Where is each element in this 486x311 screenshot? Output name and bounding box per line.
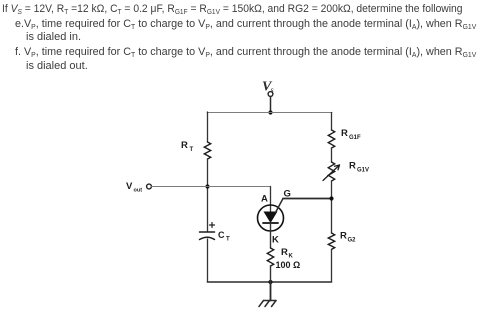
problem statement line 5 [26, 60, 88, 72]
label RG1V [349, 161, 369, 174]
problem statement line 4 [15, 46, 476, 58]
svg-text:R: R [181, 140, 188, 151]
node Vs terminal circle [268, 92, 273, 97]
svg-text:K: K [289, 254, 294, 260]
transistor Q1 cathode bar [263, 222, 278, 224]
resistor RG2 [328, 233, 334, 249]
wire right mid2 [331, 181, 333, 233]
transistor Q1 gate lead [276, 199, 284, 213]
svg-text:G1F: G1F [349, 135, 361, 141]
resistor RG1V arrow [323, 165, 340, 181]
wire right lower [331, 250, 333, 282]
ground [259, 301, 276, 307]
junction bottom [268, 280, 272, 284]
svg-text:out: out [134, 188, 143, 194]
wire anode vertical [270, 187, 272, 213]
wire ground stem [270, 282, 272, 301]
junction Vout [205, 184, 209, 188]
svg-text:T: T [226, 237, 230, 243]
svg-text:R: R [349, 161, 356, 172]
svg-text:V: V [126, 181, 133, 192]
wire anode horizontal [208, 186, 271, 188]
svg-text:G1V: G1V [357, 168, 369, 174]
wire gate horizontal [283, 198, 332, 200]
node Vout terminal circle [147, 184, 152, 189]
wire left upper [207, 112, 209, 142]
wire left lower [207, 239, 209, 282]
resistor RK [267, 248, 273, 266]
problem statement line 2 [15, 18, 476, 30]
svg-text:C: C [218, 230, 225, 240]
resistor RG1F [328, 130, 334, 148]
wire bottom horizontal [208, 281, 332, 283]
capacitor CT plus sign [210, 223, 215, 228]
junction gate [329, 196, 333, 200]
label Vout [126, 181, 142, 194]
label RT [181, 140, 194, 153]
wire Vout horizontal [152, 186, 208, 188]
wire top horizontal [207, 112, 332, 114]
label RG1F [341, 128, 361, 141]
transistor Q1 anode triangle [264, 212, 278, 224]
junction top [268, 110, 272, 114]
wire Vs stem [270, 97, 272, 113]
svg-text:R: R [281, 247, 288, 258]
wire right mid1 [331, 148, 333, 162]
problem statement line 3 [26, 31, 81, 43]
svg-text:K: K [272, 235, 279, 246]
wire cathode vertical [270, 223, 272, 248]
label CT [218, 230, 230, 243]
svg-text:T: T [190, 147, 194, 153]
svg-text:R: R [340, 231, 347, 242]
capacitor CT [200, 232, 215, 240]
node Vs label [262, 80, 274, 95]
svg-text:G2: G2 [348, 238, 357, 244]
wire right upper [331, 113, 333, 131]
wire left middle [207, 159, 209, 232]
resistor RT [204, 142, 210, 159]
transistor Q1 PUT circle [258, 205, 284, 231]
label RG2 [340, 231, 356, 244]
wire cathode lower [270, 266, 272, 282]
resistor RG1V variable [328, 162, 334, 181]
svg-text:100 Ω: 100 Ω [276, 260, 301, 270]
label RK [281, 247, 294, 260]
problem statement line 1 [2, 3, 463, 15]
svg-text:R: R [341, 128, 348, 139]
svg-text:A: A [261, 194, 268, 205]
